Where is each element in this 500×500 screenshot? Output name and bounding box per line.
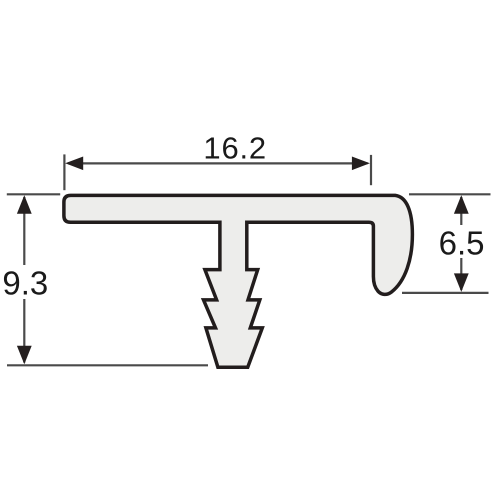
svg-text:16.2: 16.2 bbox=[203, 131, 267, 166]
svg-text:9.3: 9.3 bbox=[2, 265, 48, 302]
svg-text:6.5: 6.5 bbox=[439, 224, 485, 261]
